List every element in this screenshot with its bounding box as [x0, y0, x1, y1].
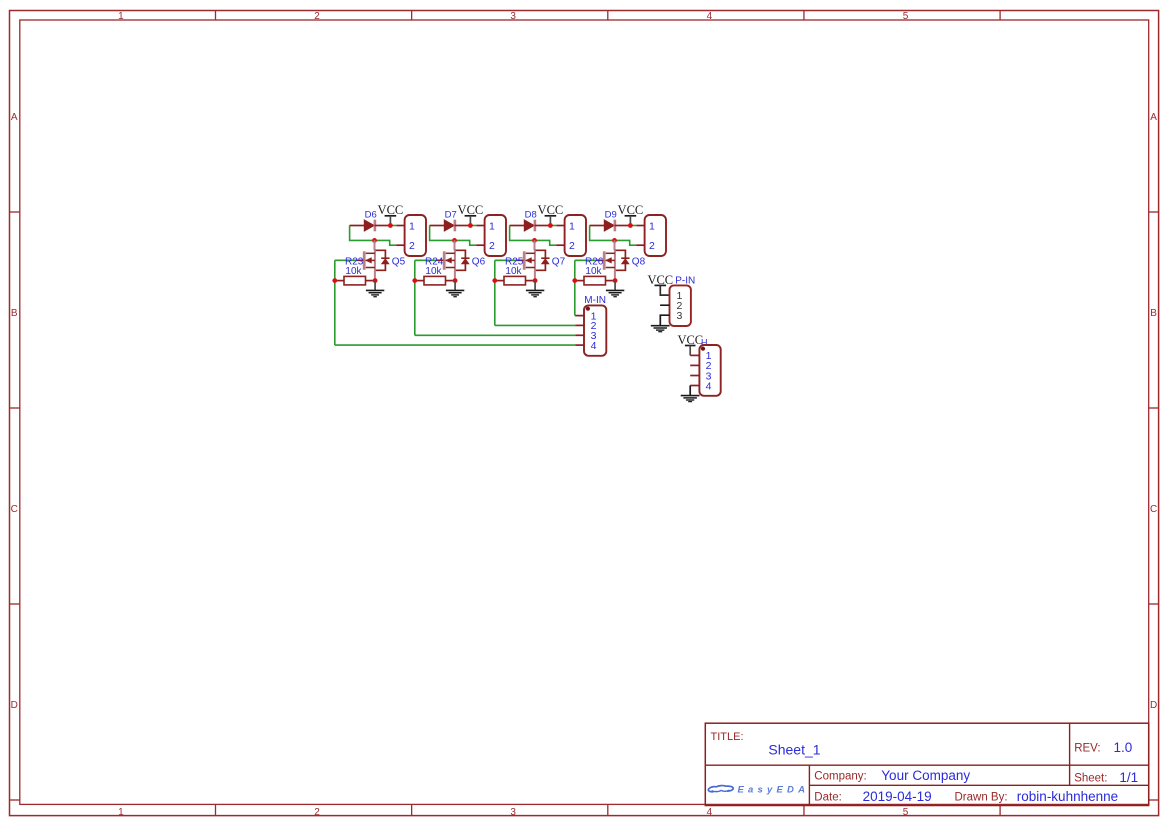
svg-text:10k: 10k: [425, 266, 442, 277]
svg-text:Q8: Q8: [632, 256, 646, 267]
svg-text:2: 2: [489, 240, 495, 252]
svg-text:C: C: [11, 504, 18, 515]
svg-text:D: D: [11, 700, 18, 711]
svg-text:10k: 10k: [585, 266, 602, 277]
svg-text:1: 1: [409, 220, 415, 232]
svg-text:3: 3: [677, 310, 683, 322]
svg-text:4: 4: [707, 807, 713, 818]
svg-text:Sheet:: Sheet:: [1074, 773, 1107, 785]
svg-text:TITLE:: TITLE:: [711, 731, 744, 743]
svg-text:D8: D8: [525, 210, 537, 221]
svg-text:2: 2: [649, 240, 655, 252]
svg-text:C: C: [1150, 504, 1157, 515]
svg-text:4: 4: [707, 11, 713, 22]
svg-text:EasyEDA: EasyEDA: [738, 784, 810, 795]
svg-text:B: B: [11, 308, 18, 319]
svg-text:D: D: [1150, 700, 1157, 711]
svg-text:2: 2: [409, 240, 415, 252]
svg-text:Sheet_1: Sheet_1: [768, 742, 820, 758]
svg-text:Q6: Q6: [472, 256, 486, 267]
svg-text:D9: D9: [605, 210, 617, 221]
svg-text:Company:: Company:: [814, 771, 866, 783]
svg-text:3: 3: [510, 807, 516, 818]
svg-text:D7: D7: [445, 210, 457, 221]
svg-text:10k: 10k: [505, 266, 522, 277]
svg-text:1: 1: [649, 220, 655, 232]
svg-text:1: 1: [118, 807, 124, 818]
svg-text:2: 2: [314, 11, 320, 22]
svg-text:2019-04-19: 2019-04-19: [863, 789, 932, 804]
svg-text:VCC: VCC: [618, 203, 644, 217]
svg-text:D6: D6: [365, 210, 377, 221]
svg-text:VCC: VCC: [378, 203, 404, 217]
svg-text:Q7: Q7: [552, 256, 566, 267]
svg-text:3: 3: [510, 11, 516, 22]
svg-text:10k: 10k: [345, 266, 362, 277]
svg-text:A: A: [1150, 112, 1157, 123]
svg-text:Date:: Date:: [814, 792, 842, 804]
svg-text:1: 1: [489, 220, 495, 232]
svg-text:2: 2: [569, 240, 575, 252]
svg-text:5: 5: [903, 11, 909, 22]
svg-text:robin-kuhnhenne: robin-kuhnhenne: [1017, 789, 1118, 804]
svg-text:4: 4: [706, 380, 712, 392]
svg-text:1/1: 1/1: [1119, 770, 1138, 785]
svg-text:5: 5: [903, 807, 909, 818]
svg-text:B: B: [1150, 308, 1157, 319]
svg-text:REV:: REV:: [1074, 743, 1100, 755]
svg-text:A: A: [11, 112, 18, 123]
svg-text:Q5: Q5: [392, 256, 406, 267]
svg-text:Your Company: Your Company: [881, 768, 970, 783]
svg-text:2: 2: [314, 807, 320, 818]
svg-text:VCC: VCC: [538, 203, 564, 217]
svg-text:1: 1: [118, 11, 124, 22]
svg-text:4: 4: [591, 340, 597, 352]
svg-text:1: 1: [569, 220, 575, 232]
svg-text:1.0: 1.0: [1114, 740, 1133, 755]
svg-text:Drawn By:: Drawn By:: [955, 792, 1008, 804]
svg-text:VCC: VCC: [458, 203, 484, 217]
